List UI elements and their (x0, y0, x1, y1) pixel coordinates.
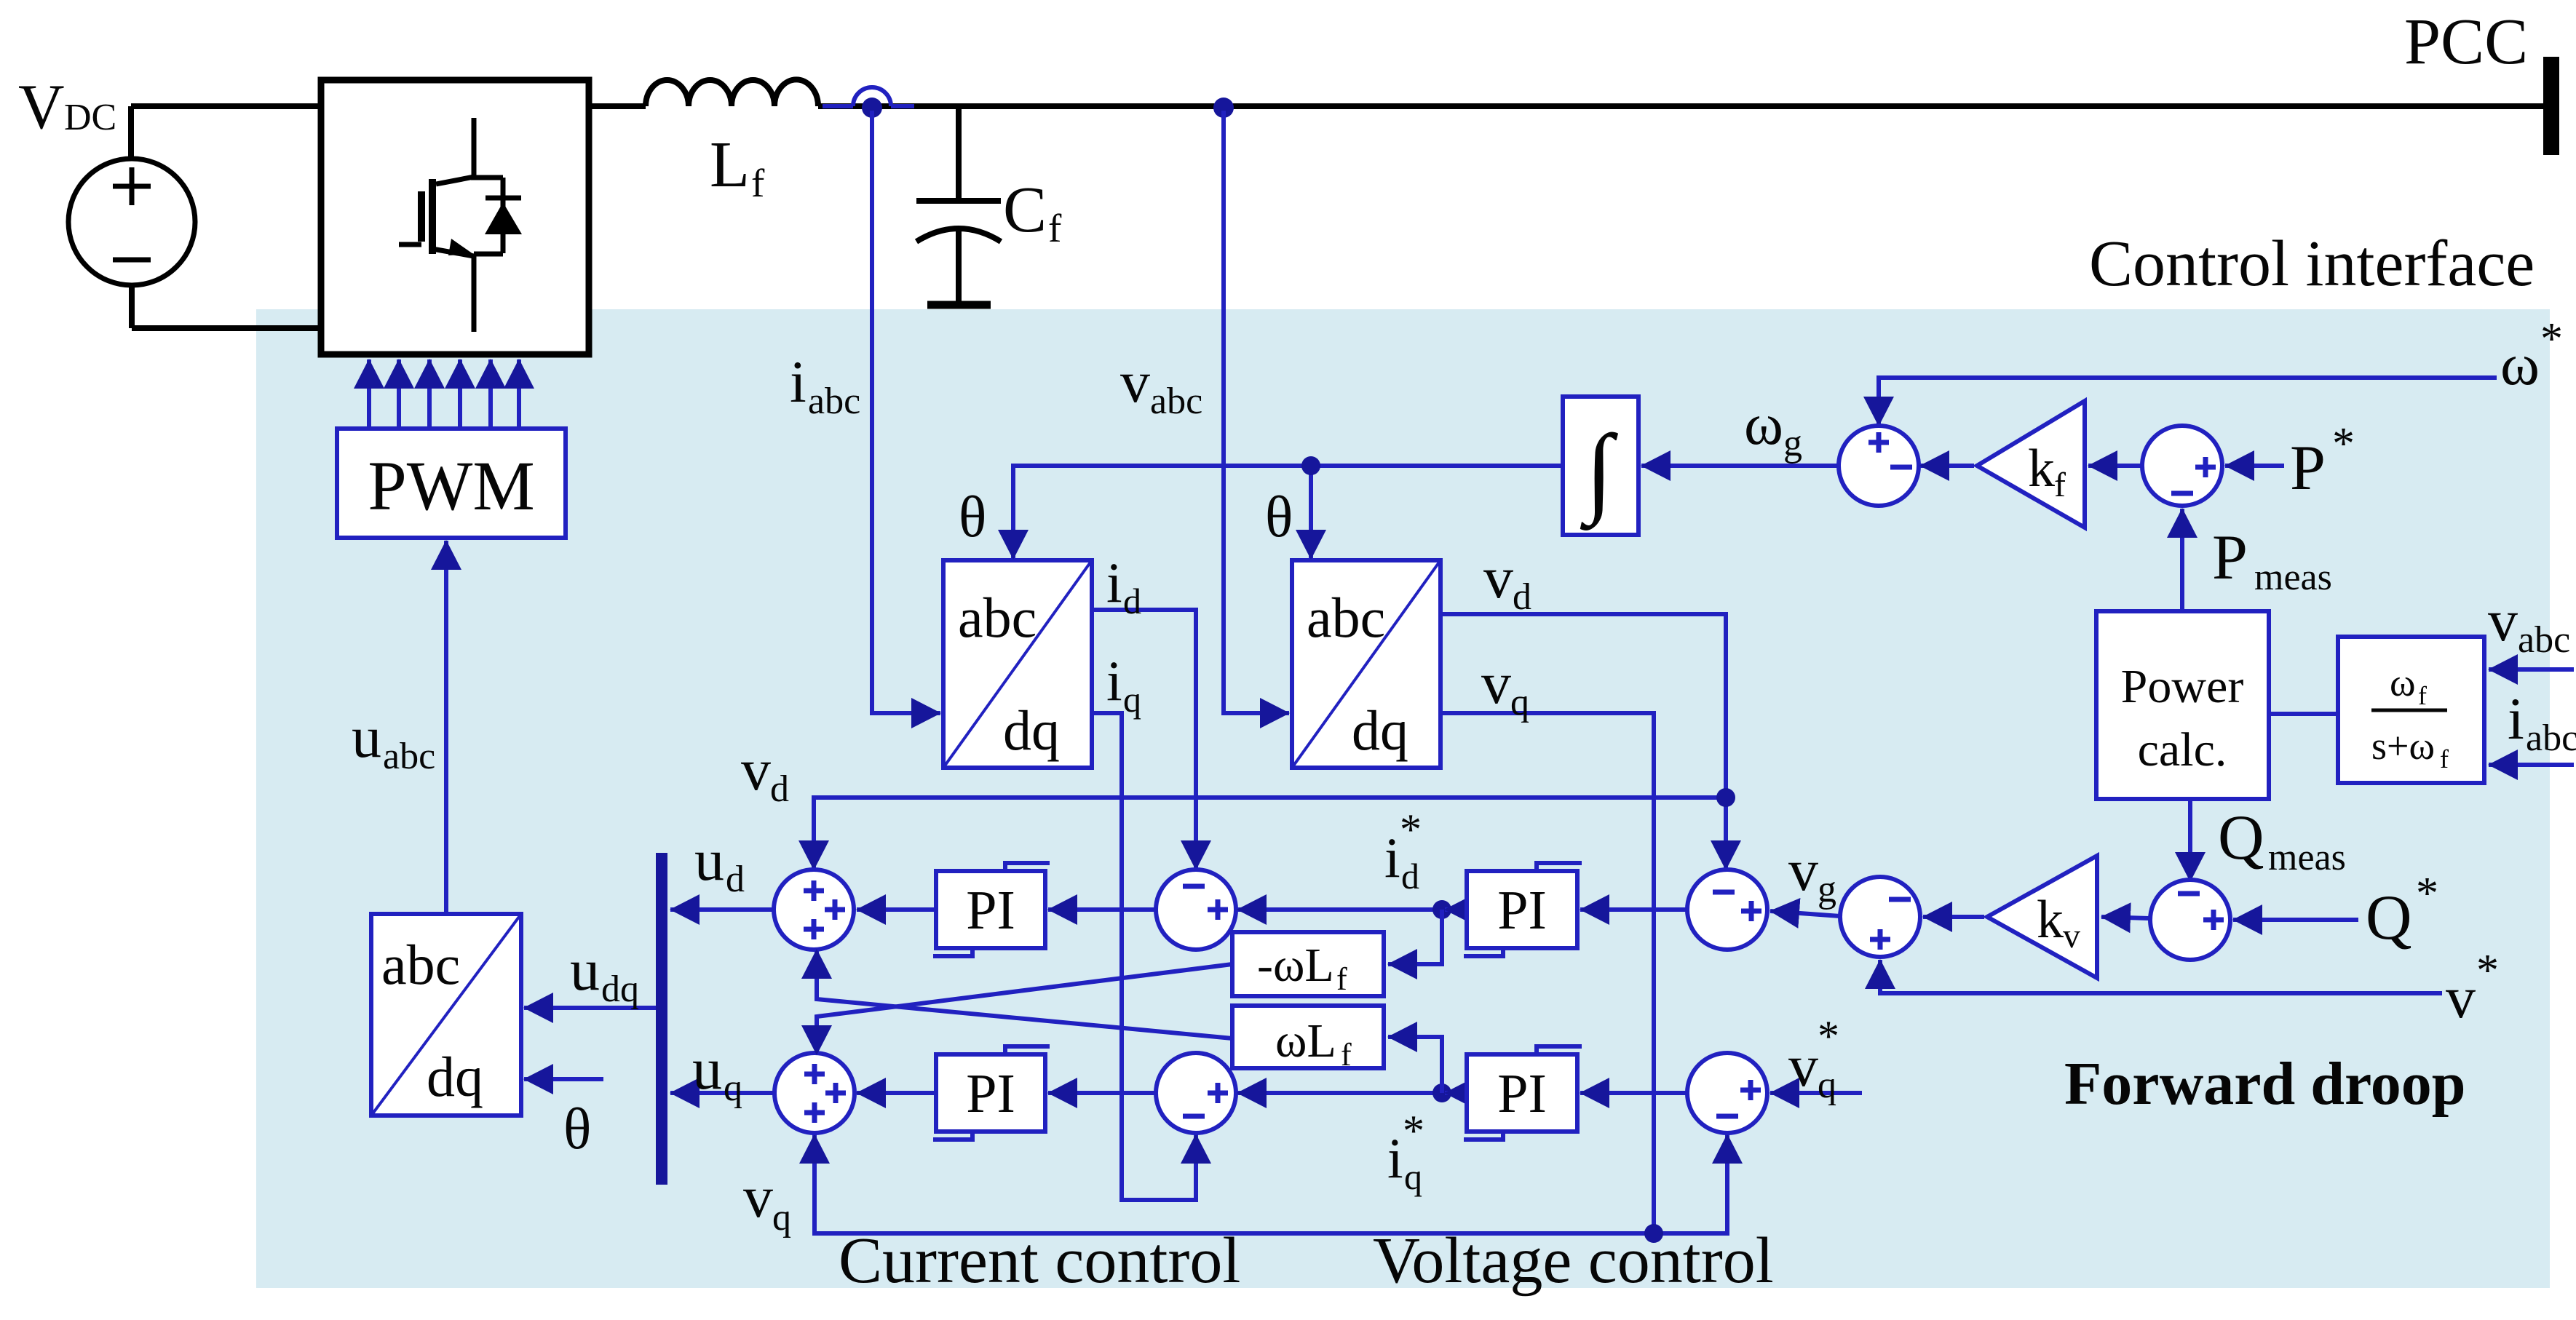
svg-text:Forward droop: Forward droop (2064, 1050, 2465, 1118)
svg-text:*: * (2476, 946, 2499, 995)
svg-text:abc: abc (1307, 586, 1385, 649)
svg-text:*: * (2416, 869, 2438, 918)
svg-text:∫: ∫ (1580, 414, 1618, 530)
svg-text:v: v (2488, 587, 2518, 653)
svg-text:abc: abc (383, 736, 435, 777)
svg-text:f: f (1048, 206, 1062, 250)
svg-text:u: u (352, 704, 381, 770)
svg-text:PWM: PWM (368, 447, 534, 525)
svg-text:f: f (2440, 744, 2449, 774)
svg-text:dq: dq (1003, 699, 1060, 762)
svg-text:i: i (1106, 551, 1122, 614)
svg-text:meas: meas (2268, 837, 2346, 878)
svg-text:PI: PI (966, 880, 1015, 941)
svg-text:u: u (694, 827, 724, 893)
svg-text:v: v (1788, 1033, 1818, 1099)
svg-text:V: V (18, 72, 65, 143)
svg-text:abc: abc (381, 933, 460, 996)
svg-text:Power: Power (2121, 660, 2244, 713)
svg-text:dq: dq (427, 1045, 483, 1108)
svg-text:d: d (726, 859, 745, 900)
svg-text:ωL: ωL (1275, 1014, 1336, 1067)
svg-text:abc: abc (1150, 381, 1202, 422)
svg-text:f: f (1336, 961, 1347, 997)
svg-text:g: g (1783, 423, 1802, 464)
svg-text:dq: dq (601, 969, 639, 1010)
svg-text:v: v (2063, 917, 2080, 955)
svg-text:PI: PI (1497, 1063, 1547, 1124)
svg-text:d: d (1513, 576, 1531, 618)
svg-text:Q: Q (2218, 803, 2264, 873)
svg-text:*: * (2540, 314, 2563, 364)
svg-text:DC: DC (64, 97, 116, 138)
svg-text:Q: Q (2366, 883, 2412, 953)
svg-text:abc: abc (958, 586, 1037, 649)
svg-text:abc: abc (2518, 619, 2570, 661)
svg-text:*: * (1400, 806, 1422, 854)
svg-text:f: f (2418, 681, 2427, 710)
svg-text:q: q (724, 1067, 742, 1109)
svg-text:i: i (1106, 649, 1122, 712)
svg-text:v: v (743, 1164, 773, 1230)
svg-text:f: f (2054, 466, 2066, 504)
svg-text:i: i (1384, 826, 1400, 889)
svg-text:v: v (1120, 349, 1150, 415)
svg-text:q: q (772, 1197, 791, 1239)
svg-text:*: * (1403, 1107, 1424, 1155)
svg-text:u: u (692, 1035, 722, 1102)
svg-text:d: d (770, 768, 789, 810)
svg-text:f: f (1341, 1037, 1352, 1073)
svg-text:v: v (1481, 650, 1511, 716)
svg-text:ω: ω (2500, 331, 2540, 397)
svg-text:v: v (2446, 964, 2476, 1030)
svg-text:q: q (1123, 679, 1141, 720)
svg-text:g: g (1818, 869, 1836, 910)
svg-text:v: v (741, 736, 771, 803)
svg-text:Current control: Current control (839, 1225, 1240, 1297)
svg-text:k: k (2037, 890, 2064, 950)
svg-text:θ: θ (563, 1097, 591, 1161)
svg-text:k: k (2028, 439, 2055, 498)
svg-text:meas: meas (2254, 557, 2332, 598)
svg-text:*: * (2332, 419, 2355, 469)
svg-text:ω: ω (2390, 661, 2416, 704)
svg-text:Voltage control: Voltage control (1373, 1225, 1774, 1297)
svg-text:q: q (1510, 682, 1529, 723)
svg-text:v: v (1483, 544, 1513, 611)
svg-text:PI: PI (1497, 880, 1547, 941)
svg-text:f: f (751, 161, 765, 205)
svg-text:i: i (790, 349, 807, 415)
svg-text:-ωL: -ωL (1257, 939, 1334, 992)
svg-text:s+ω: s+ω (2371, 724, 2435, 768)
svg-text:PCC: PCC (2404, 6, 2528, 78)
svg-text:Control interface: Control interface (2089, 228, 2535, 300)
svg-text:θ: θ (1265, 485, 1293, 549)
svg-text:abc: abc (2526, 717, 2576, 759)
svg-text:*: * (1818, 1012, 1839, 1060)
svg-text:i: i (1387, 1126, 1403, 1190)
svg-text:abc: abc (808, 381, 860, 422)
svg-text:dq: dq (1352, 699, 1408, 762)
svg-text:PI: PI (966, 1063, 1015, 1124)
svg-text:d: d (1123, 581, 1141, 621)
svg-text:calc.: calc. (2138, 723, 2227, 776)
svg-text:q: q (1404, 1156, 1422, 1197)
svg-text:i: i (2508, 685, 2524, 752)
svg-text:q: q (1818, 1065, 1836, 1106)
svg-text:θ: θ (959, 485, 986, 549)
svg-text:d: d (1401, 856, 1419, 896)
svg-text:v: v (1788, 837, 1818, 903)
svg-text:C: C (1003, 174, 1047, 246)
svg-text:P: P (2290, 433, 2326, 504)
svg-text:u: u (570, 937, 600, 1003)
svg-text:P: P (2212, 522, 2248, 593)
svg-text:L: L (710, 129, 750, 201)
svg-text:ω: ω (1744, 391, 1783, 457)
